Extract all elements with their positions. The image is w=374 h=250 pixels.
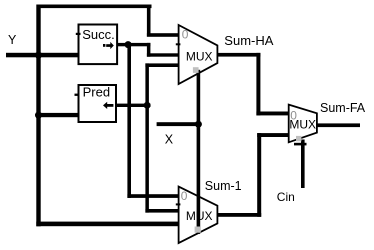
wire: MUX1 input-0 bar	[147, 33, 180, 37]
pin tick on MUX2 left edge	[176, 203, 181, 205]
mux U3 (output MUX, Sum-FA)	[289, 105, 317, 143]
wire: Sum-HA riser down	[256, 53, 260, 116]
svg-text:Y: Y	[8, 33, 17, 47]
wire: MUX1 output (Sum-HA) horizontal	[217, 53, 260, 57]
junction: Succ output node	[125, 41, 132, 48]
wire: select line X from MUX1 through MUX2	[197, 70, 201, 234]
svg-text:Cin: Cin	[277, 190, 295, 204]
wire: MUX3 output Sum-FA	[317, 123, 361, 127]
svg-text:0: 0	[182, 28, 189, 42]
wire: Pred riser up to MUX1 input 3	[145, 63, 149, 107]
wire: Sum-1 to MUX3 input 1	[257, 133, 289, 137]
wire: Succ output horizontal	[116, 43, 150, 46]
svg-text:0: 0	[181, 189, 188, 203]
svg-text:Sum-HA: Sum-HA	[224, 33, 273, 48]
junction: Y bus to Pred node	[35, 112, 42, 119]
wire: MUX1 input-3 bar	[145, 63, 179, 67]
op block Succ (successor)	[79, 25, 118, 65]
junction: X select node	[195, 121, 202, 128]
wire: X input horizontal	[157, 122, 201, 126]
select marker square MUX3	[296, 136, 301, 141]
wire: Y vertical bus	[36, 5, 40, 227]
wire: bottom run from Y bus to MUX2 third input	[36, 222, 179, 227]
mux U1 (top MUX, Sum-HA)	[179, 25, 218, 84]
op block Pred (predecessor)	[79, 85, 117, 122]
svg-text:Succ.: Succ.	[82, 27, 115, 42]
wire: Sum-1 riser up	[257, 133, 261, 217]
wire: MUX2 output (Sum-1) horizontal	[217, 213, 261, 217]
select marker square MUX2	[195, 227, 201, 233]
wire: MUX2 input-2 bar	[145, 209, 179, 213]
svg-text:X: X	[165, 132, 174, 146]
wire: Sum-HA to MUX3 input 0	[256, 112, 289, 116]
pin tick on Succ left edge	[76, 33, 81, 35]
wire: Succ branch vertical down to MUX2	[127, 43, 131, 198]
svg-text:Pred: Pred	[83, 84, 110, 99]
wire: MUX1 input-2 bar	[147, 53, 180, 56]
wire: Y input horizontal	[6, 53, 79, 58]
junction: Y to Succ/Pred node	[35, 52, 42, 59]
svg-text:Sum-1: Sum-1	[205, 179, 242, 193]
wire: Succ output step-down	[147, 43, 151, 57]
wire: Cin vertical into MUX3 select	[301, 140, 305, 189]
mux U2 (bottom MUX, Sum-1)	[179, 187, 218, 243]
pin tick on Pred left edge	[75, 94, 80, 96]
wire: top feedback down-leg	[147, 5, 151, 37]
wire: Pred output horizontal	[116, 104, 150, 107]
svg-text:MUX: MUX	[186, 209, 213, 223]
wire: top feedback from Y bus to MUX1 input 0 (horizontal run)	[37, 5, 152, 9]
svg-text:0: 0	[290, 108, 297, 122]
svg-text:MUX: MUX	[186, 50, 213, 64]
select marker square MUX1	[193, 67, 199, 73]
icon: Succ right-arrow with dot	[103, 42, 114, 49]
pin tick at MUX3 select	[294, 143, 307, 146]
wire: Pred branch vertical down to MUX2	[145, 104, 149, 213]
pin tick on MUX1 left edge	[176, 43, 181, 45]
svg-text:Sum-FA: Sum-FA	[320, 101, 366, 115]
wire: Y to Pred box	[36, 113, 79, 117]
junction: Pred output node	[144, 102, 151, 109]
wire: MUX2 input-0 bar	[127, 194, 179, 198]
icon: Pred left-arrow	[103, 102, 113, 109]
